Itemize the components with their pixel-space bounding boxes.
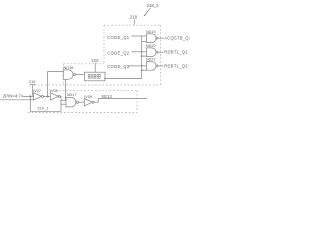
pointer line: [32, 85, 34, 96]
wire ND19 output: [158, 37, 164, 39]
svg-text:ND17: ND17: [67, 92, 77, 97]
wire lower-left from edge: [0, 99, 34, 101]
svg-text:RDBTL_Q3: RDBTL_Q3: [164, 63, 188, 68]
svg-text:218_2: 218_2: [147, 3, 160, 8]
wire ND16 lower input from below: [64, 80, 66, 101]
dashed box 218_2 left edge: [103, 25, 105, 64]
dashed box 218_2 top edge: [104, 24, 161, 26]
dashed middle box left edge: [63, 64, 65, 85]
inverter IV07 label: [33, 88, 41, 93]
svg-text:ND19: ND19: [146, 30, 156, 34]
svg-text:220: 220: [91, 58, 99, 63]
dashed bottom box top edge: [59, 89, 137, 91]
label input 2PIN<4:7>: [3, 94, 24, 99]
svg-text:SE13: SE13: [101, 94, 112, 99]
dashed bottom box right edge: [136, 90, 138, 112]
label 218_2: [147, 3, 160, 8]
svg-text:IV07: IV07: [33, 88, 41, 93]
wire CODE_Q3 to ND21: [129, 65, 147, 67]
svg-text:CODE_Q1: CODE_Q1: [107, 35, 130, 40]
nand gate ND16: [63, 70, 73, 79]
inverter IV07: [34, 93, 42, 100]
nand ND20 label: [146, 44, 156, 48]
wire CODE_Q2 to ND20: [132, 51, 147, 53]
label ACQSTB_Q1: [164, 36, 192, 41]
wire ND20 output: [158, 51, 164, 53]
delay box text: [88, 74, 100, 78]
wire enable stub gate1: [142, 41, 147, 43]
dashed box 218_2 right edge: [160, 25, 162, 85]
svg-text:ACQSTB_Q1: ACQSTB_Q1: [164, 36, 190, 41]
wire ND17 input stub upper: [61, 99, 66, 101]
svg-text:IV09: IV09: [84, 94, 92, 99]
junction dot: [141, 69, 143, 71]
dashed middle box top edge: [64, 63, 105, 65]
svg-text:215: 215: [29, 79, 36, 84]
nand gate ND21: [146, 62, 156, 71]
dashed bottom edge shared y85: [34, 84, 161, 86]
junction dot chain: [47, 95, 49, 97]
label 218: [130, 14, 138, 19]
nand gate ND19: [146, 34, 156, 43]
leader arrow to block 218_2: [145, 8, 150, 15]
wire ND16 out to delay box: [76, 74, 85, 76]
nand ND16 label: [64, 65, 74, 70]
svg-text:218: 218: [130, 14, 138, 19]
label CODE_Q1: [107, 35, 130, 40]
junction dot: [141, 51, 143, 53]
svg-text:ND21: ND21: [146, 58, 156, 62]
wire ND17 out: [78, 101, 84, 103]
svg-text:210_1: 210_1: [38, 105, 50, 110]
wire enable vertical: [141, 36, 143, 79]
label under chain: [38, 105, 50, 110]
svg-text:2PIN<4:7>: 2PIN<4:7>: [3, 94, 24, 99]
wire IV29 out: [94, 99, 147, 103]
pointer bar: [30, 84, 36, 86]
inverter IV08 label: [50, 88, 58, 93]
label RDBTL_Q2: [164, 50, 188, 55]
svg-text:ND20: ND20: [146, 44, 156, 48]
wire CODE_Q1 to ND19: [132, 35, 147, 37]
label CODE_Q2: [107, 50, 130, 55]
delay box: [85, 72, 106, 81]
wire enable stub gate2: [142, 55, 147, 57]
junction dot: [141, 55, 143, 57]
svg-text:ND16: ND16: [64, 65, 74, 70]
label 220: [91, 58, 99, 63]
leader tick for 218: [133, 20, 135, 25]
wire chain up to ND16: [48, 72, 64, 97]
svg-text:CODE_Q2: CODE_Q2: [107, 50, 130, 55]
leader tick for 220: [94, 63, 96, 72]
wire input: [23, 95, 34, 97]
dashed bottom box bottom edge: [28, 112, 137, 114]
inverter IV08: [50, 93, 58, 100]
nand ND19 label: [146, 30, 156, 34]
wire enable stub gate3: [142, 69, 147, 71]
inverter IV29 label: [84, 94, 92, 99]
inverter IV29: [84, 99, 92, 106]
label SE13: [101, 94, 112, 99]
nand ND21 label: [146, 58, 156, 62]
nand gate ND17: [66, 97, 76, 106]
wire delay output to enable: [104, 78, 142, 80]
junction dot input: [29, 95, 31, 97]
nand ND17 label: [67, 92, 77, 97]
wire IV08 out to corner: [59, 96, 62, 111]
label RDBTL_Q3: [164, 63, 188, 68]
wire input branch down: [30, 96, 61, 111]
svg-text:CODE_Q3: CODE_Q3: [107, 64, 130, 69]
junction dot: [141, 65, 143, 67]
svg-text:RDBTL_Q2: RDBTL_Q2: [164, 50, 188, 55]
nand gate ND20: [146, 48, 156, 57]
svg-text:IV08: IV08: [50, 88, 58, 93]
ref label pointer: [29, 79, 36, 84]
wire ND21 output: [158, 65, 164, 67]
wire ND17 input stub lower: [61, 103, 66, 105]
wire IV07 out: [43, 95, 50, 97]
label CODE_Q3: [107, 64, 130, 69]
